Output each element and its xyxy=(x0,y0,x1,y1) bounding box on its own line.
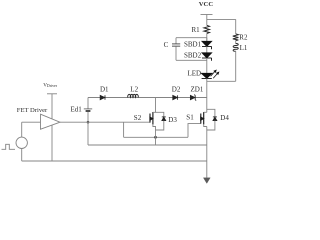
svg-text:SBD2: SBD2 xyxy=(184,52,202,60)
label Ed1 xyxy=(71,105,83,113)
wire R2/L1 bottom to LED cathode node xyxy=(207,80,236,82)
capacitor C xyxy=(172,38,180,61)
wire S2 drain xyxy=(153,98,156,113)
wire R2 to L1 xyxy=(235,41,237,44)
transistor S1 xyxy=(201,112,204,124)
inductor L2 xyxy=(128,94,138,97)
label SBD2 xyxy=(184,52,202,60)
ground arrow xyxy=(203,178,210,184)
svg-text:L1: L1 xyxy=(240,44,248,52)
diode D3 xyxy=(156,112,166,130)
wire node to SBD1 xyxy=(206,38,208,42)
svg-text:FET Driver: FET Driver xyxy=(17,107,48,114)
wire VCC bar down to R1 top xyxy=(206,15,208,26)
label L1 xyxy=(240,44,248,52)
junction dot on S1 gate bus xyxy=(154,136,157,139)
pulse waveform symbol xyxy=(2,144,16,149)
VCC power bar xyxy=(201,14,213,16)
label ZD1 xyxy=(191,86,204,94)
inductor L1 xyxy=(233,44,238,52)
junction dot driver output / Ed1 xyxy=(87,121,90,124)
wire source bottom to rail xyxy=(21,149,23,162)
wire branch to R2 at y=19 xyxy=(207,19,236,33)
label D1 xyxy=(100,86,109,94)
label FET Driver xyxy=(17,107,48,114)
battery Ed1 xyxy=(84,98,92,123)
wire S1 gate lead xyxy=(188,124,201,138)
label SBD1 xyxy=(184,41,202,49)
svg-text:R2: R2 xyxy=(239,33,248,41)
svg-text:D3: D3 xyxy=(168,116,177,124)
wire source to driver input xyxy=(22,122,41,137)
diode D1 xyxy=(100,95,105,100)
wire S1 drain xyxy=(204,111,207,113)
wire LED to node y=80.8 and down to ZD1 wire xyxy=(206,79,208,113)
wire S1 source down to ground xyxy=(206,127,208,178)
zener diode ZD1 xyxy=(190,95,196,101)
svg-text:L2: L2 xyxy=(130,86,138,94)
node line top of C / SBD1 xyxy=(176,37,207,39)
wire SBD1 to SBD2 xyxy=(206,46,208,52)
op-amp FET driver triangle xyxy=(41,114,61,129)
label L2 xyxy=(130,86,138,94)
resistor R1 xyxy=(204,25,210,33)
wire L1 down to bottom node xyxy=(235,51,237,81)
wire SBD2 to LED xyxy=(206,58,208,73)
source circle xyxy=(16,137,27,148)
resistor R2 xyxy=(233,34,239,41)
svg-text:S2: S2 xyxy=(134,114,142,122)
wire driver output to S2 gate xyxy=(60,121,150,123)
label LED xyxy=(188,70,202,78)
label S2 xyxy=(134,114,142,122)
wire R1 bottom to SBD1 xyxy=(206,34,208,42)
wire S1 source xyxy=(204,124,207,126)
node VCC label xyxy=(199,1,214,8)
diode D2 xyxy=(173,95,178,100)
svg-text:D2: D2 xyxy=(172,86,181,94)
label VDriver xyxy=(43,83,58,89)
diode SBD1 xyxy=(202,41,212,49)
label D2 xyxy=(172,86,181,94)
wire S2 source xyxy=(153,124,156,145)
diode D4 xyxy=(207,109,217,130)
label D4 xyxy=(220,114,229,122)
svg-text:C: C xyxy=(164,41,169,49)
svg-text:LED: LED xyxy=(188,70,202,78)
LED emission arrows xyxy=(211,70,219,78)
svg-text:Driver: Driver xyxy=(47,84,58,88)
wire bottom rail xyxy=(22,160,207,162)
label C xyxy=(164,41,169,49)
svg-text:SBD1: SBD1 xyxy=(184,41,202,49)
diode SBD2 xyxy=(202,53,212,61)
LED xyxy=(201,73,212,78)
wire VDriver down to bottom rail xyxy=(51,94,53,161)
wire Ed1 down to gate bus y=145 xyxy=(88,122,207,145)
svg-text:Ed1: Ed1 xyxy=(71,105,83,113)
node line bottom of C / SBD2 xyxy=(176,59,207,61)
label R1 xyxy=(192,26,201,34)
svg-text:VCC: VCC xyxy=(199,1,214,8)
label D3 xyxy=(168,116,177,124)
svg-text:D1: D1 xyxy=(100,86,109,94)
VDriver power bar xyxy=(47,93,57,95)
wire main horizontal y=97.5 xyxy=(88,97,207,99)
svg-text:R1: R1 xyxy=(192,26,201,34)
transistor S2 xyxy=(150,112,153,124)
label R2 xyxy=(239,33,248,41)
svg-text:ZD1: ZD1 xyxy=(191,86,204,94)
svg-text:S1: S1 xyxy=(186,114,194,122)
svg-text:D4: D4 xyxy=(220,114,229,122)
label S1 xyxy=(186,114,194,122)
wire branch down at x=123.6 to S1 gate bus xyxy=(124,122,188,137)
